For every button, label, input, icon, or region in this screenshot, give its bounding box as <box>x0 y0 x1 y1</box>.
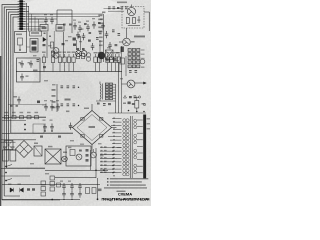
labels above relays <box>34 143 38 145</box>
note line 2 <box>107 181 109 182</box>
wire bridge left cap <box>69 123 73 130</box>
wire y151 mid <box>91 148 93 152</box>
wire y113 horizontal <box>108 112 146 114</box>
transistor Q6 <box>123 38 131 46</box>
transistor Q8 bottom <box>76 154 82 160</box>
parts between y133-140 <box>40 136 43 138</box>
resistor R5 <box>51 42 54 48</box>
label in A2 <box>33 70 38 72</box>
wire vertical x63 <box>63 32 65 58</box>
inductor L2 coil <box>100 82 103 102</box>
terminal dash groups row 1 <box>61 86 64 89</box>
relay K3 box <box>34 146 42 156</box>
wire long horizontal y71.5 <box>16 71 122 73</box>
divider stack x42 <box>41 181 46 185</box>
capacitor C11 C12 <box>43 124 47 131</box>
diode D3 bottom <box>10 188 14 192</box>
wire y177 long <box>55 176 96 178</box>
label box small x29-41 <box>30 31 42 36</box>
parts row y101-112 right <box>123 103 126 105</box>
wire top net y8 <box>104 8 122 10</box>
dots left column <box>24 124 26 126</box>
svg-text:ПРИНЦИПИАЛЬНАЯ ЭЛЕКТРИЧЕСКАЯ: ПРИНЦИПИАЛЬНАЯ ЭЛЕКТРИЧЕСКАЯ <box>102 198 150 202</box>
capacitor C21 C22 top cluster <box>44 17 48 24</box>
module A2 box outline <box>17 58 41 82</box>
wire connector adjacent verticals <box>26 3 28 32</box>
wire T1 feeds upper left <box>108 119 117 144</box>
resistor bank mid row <box>42 54 45 72</box>
module U2 inner parts <box>126 16 140 26</box>
wire bus turnouts bottom <box>2 117 73 200</box>
stacked second row boxes <box>51 51 54 56</box>
parts left of DD1 <box>121 47 124 53</box>
extra caps row y32-38 center <box>76 32 80 39</box>
wire fan from connector right <box>23 4 100 29</box>
component box K2 top <box>56 25 64 32</box>
label above bridge <box>84 108 89 110</box>
relay K4 small x-box left <box>4 141 13 150</box>
component mark x44 y44 <box>43 44 46 46</box>
wire bridge bottom <box>91 145 93 149</box>
capacitor C13 left y97 <box>17 97 21 104</box>
wire verticals x76 x80 <box>76 40 78 50</box>
module U2 dashed box <box>122 7 144 29</box>
parts above transformer x106 y32-38 <box>105 31 109 38</box>
module A3 right column parts <box>86 149 89 152</box>
label top edge right <box>117 2 127 4</box>
transformer T1 winding column A <box>123 119 126 176</box>
label Vyh.G output <box>134 36 145 38</box>
label near Q6 <box>131 41 135 43</box>
transistor Q7 <box>127 80 135 88</box>
label column x100 stack 2 <box>99 37 103 39</box>
transformer TV2 crossed circles <box>76 51 82 57</box>
wire Q7 right arrow <box>135 82 146 84</box>
capacitor C5 electrolytic cylinder <box>135 101 139 109</box>
double circle part x88 <box>86 53 90 57</box>
transformer T1 pin number labels <box>113 117 115 118</box>
label mark x37 y60 <box>37 59 40 62</box>
transformer T1 left pin stubs lower <box>117 148 122 173</box>
parts row y22-30 center-top <box>73 23 77 30</box>
tick marks x44 y33 <box>44 33 46 35</box>
svg-text:СХЕМА: СХЕМА <box>118 192 132 197</box>
wire bridge right <box>112 127 117 129</box>
wire y117 left <box>2 116 46 118</box>
bridge center label <box>89 126 96 128</box>
wire vertical x57 <box>56 10 58 24</box>
fuse F2 box <box>10 150 16 161</box>
junction dots lower <box>95 170 97 172</box>
connector X1 body <box>20 0 23 30</box>
note line 4 <box>104 187 147 188</box>
resistor row y116 <box>5 116 9 119</box>
transformer T1 core lines <box>130 116 132 178</box>
parts near diodes <box>27 188 30 190</box>
transformer T1 right bar <box>143 115 146 179</box>
module A3 box <box>66 146 91 166</box>
bridge diode top-right <box>100 118 103 121</box>
capacitor C2 in A2 <box>20 61 24 68</box>
diode D4 bottom <box>20 188 24 192</box>
mark left of title <box>98 189 102 192</box>
wire y168 left <box>1 167 45 169</box>
bridge rectifier VD1 outer diamond <box>73 111 112 145</box>
wire vertical x47 <box>46 32 48 58</box>
transformer T1 right labels <box>147 118 150 120</box>
connector X1 pin ticks <box>18 2 25 30</box>
wire x97 vertical bottom <box>97 178 99 199</box>
wire vertical x126 below <box>125 56 127 76</box>
marks near C5 <box>128 110 130 112</box>
transformer T1 right stubs <box>137 120 143 173</box>
bridge diode bottom-left <box>81 135 84 138</box>
wire y120.5 left <box>2 120 26 122</box>
wire top net y22 <box>29 21 46 23</box>
wire A1 to cluster <box>27 46 31 48</box>
component box K1 top <box>40 25 48 32</box>
box outline x33 y124 <box>33 124 44 133</box>
wire y133 mid <box>2 132 73 134</box>
component mark x38 y101 <box>37 101 40 104</box>
filled cells mid row right <box>106 58 109 62</box>
diamond blob cluster x72-80 y36-46 <box>73 38 76 41</box>
transformer T1 winding column B <box>126 119 129 176</box>
wire bottom rail y199.5 <box>2 198 80 200</box>
wire x96 vertical <box>95 148 97 178</box>
bridge diode bottom-right <box>100 135 103 138</box>
note line 1 <box>107 178 109 179</box>
title small dash <box>117 191 126 192</box>
labels above mid row <box>42 52 46 53</box>
wire DD1 right stubs <box>141 50 145 58</box>
bridge diode top-left <box>81 118 84 121</box>
divider stack x51 <box>50 176 55 180</box>
cap chain bottom <box>62 183 66 190</box>
wire vertical x54 <box>53 31 55 48</box>
diode D1 x44 <box>43 38 46 42</box>
capacitor C4 in A2 <box>20 74 24 81</box>
component mark x62-66 y42-46 <box>62 43 65 45</box>
transistor Q1 in module <box>127 7 135 15</box>
label row dense top right x108-128 y6-12 <box>108 7 111 10</box>
label column x99 stack <box>98 15 102 17</box>
wire vertical x100 <box>99 40 101 62</box>
IC DD2 cell grid 2x6 <box>105 83 108 85</box>
small box x44 y66 <box>43 66 46 68</box>
wire bridge top <box>91 104 93 111</box>
labels above diodes <box>8 184 11 185</box>
bridge rectifier inner diamond <box>77 115 107 141</box>
wire top net y19 to box <box>29 18 44 20</box>
wire left bus group (nested from connector X1 left pins) <box>2 5 19 201</box>
transformer T1 secondary loops groups <box>134 119 137 174</box>
label in module <box>137 20 140 21</box>
label a x103 y12 <box>102 12 105 14</box>
wire vertical x57 mid <box>56 84 58 112</box>
wire Q7 left <box>122 83 128 85</box>
note line 3 <box>107 184 109 185</box>
wire Q6 area <box>126 28 128 38</box>
marks below DD1 <box>129 70 132 73</box>
wire y176 left <box>1 175 30 177</box>
wire top net y14 long <box>29 13 103 15</box>
wire vertical x72 <box>71 10 73 33</box>
wire bottom rail y184.5 <box>2 183 100 185</box>
transformer T2 box with X <box>45 149 61 164</box>
module box with two dark cells <box>30 39 38 53</box>
resistor bottom pair <box>86 188 90 194</box>
junction labels on x57 <box>52 89 56 91</box>
wire module exit right <box>144 11 149 13</box>
component A1 box below connector <box>15 32 27 53</box>
fuse F1 box <box>3 150 9 161</box>
transformer TV1 double circle <box>53 48 59 54</box>
caps row y104-112 <box>44 104 48 111</box>
extra marks y42-50 right-center <box>108 42 112 49</box>
terminal dash groups row 2 <box>61 104 64 107</box>
wire x90.5 vertical <box>90 150 92 170</box>
wire y104 left stub <box>8 103 42 105</box>
module A3 parts <box>70 150 75 156</box>
wire DD2 right stubs <box>113 84 116 99</box>
dark transformer circle cluster <box>98 52 105 59</box>
wire y170 long <box>45 169 108 171</box>
wire verticals right of DD2 <box>115 84 117 113</box>
component A1 inner <box>18 38 23 45</box>
wire fan vertical drops <box>32 14 39 31</box>
wire y140-142 double left <box>1 139 36 141</box>
box pair x57 <box>57 183 61 187</box>
parts small cluster x92-105 y20-30 <box>92 22 96 29</box>
wire left page border <box>0 56 2 206</box>
wire T1 lower feeds with pin dots <box>100 148 117 173</box>
parts x88-98 y38-48 <box>88 40 91 42</box>
switch contacts left <box>5 166 7 168</box>
parts row y95-99 right <box>124 95 127 98</box>
labels bottom center <box>60 181 63 182</box>
wire right edge vertical <box>148 12 150 31</box>
lamp H1 <box>62 156 68 162</box>
wire below DD2 <box>96 100 116 102</box>
wire vertical x103 <box>103 14 105 62</box>
label SP <box>65 99 71 101</box>
component right of DD1 <box>140 59 145 64</box>
IC DD1 cell grid <box>128 49 131 52</box>
motor M1 diamond with X <box>16 141 33 158</box>
label left of bridge <box>66 111 69 113</box>
marks x64 x70 y24 <box>63 24 66 26</box>
marks below DD2 <box>97 103 100 105</box>
transformer T1 left pin stubs upper <box>117 119 122 148</box>
wire top net y10 <box>57 9 72 11</box>
transistor Q9 bottom right <box>91 152 97 158</box>
misc tiny labels <box>33 55 37 56</box>
capacitor C3 in A2 <box>29 61 33 68</box>
